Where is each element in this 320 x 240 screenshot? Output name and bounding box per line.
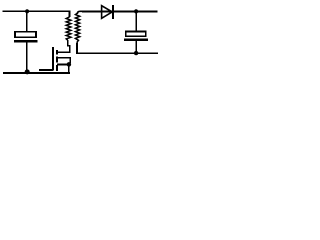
wire top-left rail — [3, 10, 71, 12]
wire gate lead of Q1 — [39, 69, 53, 71]
transistor Q1 channel segment 3 (source) — [56, 65, 58, 71]
wire bottom-right rail — [76, 52, 158, 54]
transistor Q1 gate bar — [52, 47, 54, 71]
wire capacitor C2 bottom lead — [135, 41, 137, 53]
diode D1 cathode bar — [112, 5, 114, 19]
transformer T1 primary top lead — [69, 11, 71, 17]
wire body lead of Q1 — [57, 58, 70, 63]
node E junction dot output bottom — [134, 51, 138, 55]
diode D1 anode triangle — [102, 6, 113, 19]
wire drain lead of Q1 — [57, 51, 70, 53]
capacitor C2 negative plate (solid) — [124, 39, 148, 41]
transistor Q1 channel segment 1 (drain) — [56, 50, 58, 55]
capacitor C2 positive plate (hollow) — [126, 32, 146, 37]
transformer T1 secondary top lead — [77, 11, 82, 14]
wire capacitor C1 top lead — [26, 11, 28, 31]
wire source lead of Q1 — [57, 63, 69, 65]
wire source down lead to rail — [68, 63, 70, 73]
wire capacitor C1 bottom lead — [26, 43, 28, 73]
transformer T1 secondary bottom lead — [76, 42, 78, 53]
capacitor C1 positive plate (hollow) — [15, 32, 36, 37]
wire top-right rail — [82, 10, 158, 12]
node D junction dot output top — [134, 9, 138, 13]
transformer T1 primary winding — [66, 17, 71, 40]
node B junction dot input bottom — [25, 69, 30, 74]
capacitor C1 negative plate (solid) — [14, 40, 37, 43]
transistor Q1 channel segment 2 (body) — [56, 56, 58, 62]
node A junction dot input top — [25, 9, 29, 13]
wire bottom-left rail — [3, 72, 70, 74]
wire capacitor C2 top lead — [135, 11, 137, 30]
transformer T1 secondary winding — [75, 13, 79, 42]
node C junction dot source of Q1 — [67, 62, 72, 67]
wire drain riser to primary winding — [68, 40, 70, 53]
